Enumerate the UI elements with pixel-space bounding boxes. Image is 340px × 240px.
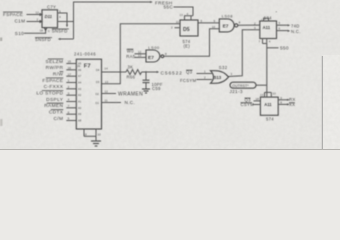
svg-text:A3: A3 — [78, 87, 82, 91]
svg-text:C-FXXX: C-FXXX — [44, 84, 64, 90]
svg-text:13: 13 — [138, 54, 142, 58]
svg-text:17: 17 — [68, 72, 72, 76]
svg-text:FSPACE: FSPACE — [42, 78, 63, 84]
svg-text:RW/PR: RW/PR — [46, 65, 64, 71]
svg-text:DSPLY: DSPLY — [46, 97, 64, 103]
svg-text:C1M: C1M — [15, 19, 26, 24]
svg-text:A11: A11 — [263, 25, 271, 30]
svg-text:18: 18 — [40, 29, 44, 33]
svg-text:C56522: C56522 — [161, 71, 183, 77]
svg-text:E7: E7 — [223, 23, 229, 29]
svg-text:A1: A1 — [78, 100, 82, 104]
svg-text:A8: A8 — [78, 119, 82, 123]
svg-text:A6: A6 — [78, 68, 82, 72]
svg-text:+: + — [276, 10, 278, 14]
svg-text:74D: 74D — [291, 23, 300, 28]
svg-text:F7: F7 — [84, 64, 91, 70]
svg-text:C7Y: C7Y — [47, 4, 56, 9]
svg-text:D4: D4 — [96, 68, 100, 72]
svg-text:A7: A7 — [78, 74, 82, 78]
svg-text:A5: A5 — [78, 62, 82, 66]
svg-text:B13: B13 — [213, 75, 221, 80]
svg-text:D3: D3 — [96, 80, 100, 84]
svg-text:D5: D5 — [183, 27, 190, 33]
svg-text:LS08: LS08 — [222, 14, 234, 19]
svg-text:D2: D2 — [96, 92, 100, 96]
svg-text:J21-3: J21-3 — [230, 89, 243, 94]
svg-text:R66: R66 — [127, 75, 136, 80]
svg-text:A9: A9 — [78, 112, 82, 116]
svg-text:55C: 55C — [164, 5, 174, 10]
svg-text:12: 12 — [36, 11, 40, 15]
svg-text:D11: D11 — [45, 14, 53, 19]
svg-text:S10: S10 — [15, 31, 24, 36]
svg-text:A4: A4 — [78, 81, 82, 85]
svg-text:LS00: LS00 — [148, 45, 160, 50]
svg-text:OUTRST*: OUTRST* — [232, 84, 249, 88]
svg-text:A11: A11 — [264, 102, 272, 107]
svg-text:WRAMEN: WRAMEN — [118, 91, 143, 97]
svg-text:N.C.: N.C. — [291, 29, 301, 34]
svg-text:10: 10 — [273, 92, 277, 96]
svg-text:R/W: R/W — [53, 72, 63, 78]
svg-text:10: 10 — [212, 25, 216, 29]
svg-text:15: 15 — [68, 60, 72, 64]
svg-text:RA5: RA5 — [126, 54, 135, 59]
svg-text:E7: E7 — [148, 55, 154, 61]
svg-text:13: 13 — [180, 13, 184, 17]
svg-text:A0: A0 — [78, 106, 82, 110]
svg-text:C/M: C/M — [53, 116, 63, 122]
svg-text:FCSYM: FCSYM — [180, 78, 196, 83]
svg-text:16: 16 — [68, 66, 72, 70]
svg-text:14: 14 — [104, 66, 108, 70]
svg-text:13: 13 — [260, 93, 264, 97]
svg-text:(E): (E) — [184, 43, 191, 48]
svg-text:11: 11 — [176, 20, 179, 24]
svg-text:3K: 3K — [128, 65, 134, 70]
svg-text:550: 550 — [280, 46, 289, 51]
svg-text:FSPACE: FSPACE — [3, 12, 23, 17]
svg-text:10: 10 — [97, 133, 101, 137]
svg-text:CDTX: CDTX — [49, 110, 64, 116]
svg-text:N.C.: N.C. — [125, 100, 136, 105]
svg-text:574: 574 — [266, 116, 274, 121]
svg-text:RAMEN: RAMEN — [44, 103, 63, 109]
svg-text:LO STOPD: LO STOPD — [36, 91, 63, 97]
svg-text:C59: C59 — [152, 86, 161, 91]
svg-text:S32: S32 — [219, 65, 228, 70]
svg-text:18: 18 — [256, 97, 260, 101]
svg-text:SELZM: SELZM — [46, 59, 64, 65]
svg-text:D1: D1 — [96, 101, 100, 105]
svg-text:241-0046: 241-0046 — [74, 51, 96, 56]
svg-text:A2: A2 — [78, 93, 82, 97]
